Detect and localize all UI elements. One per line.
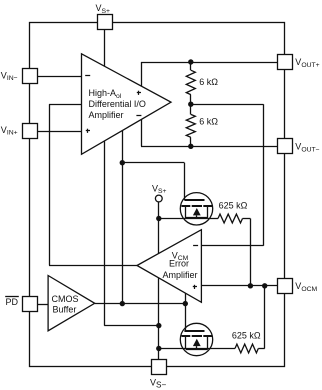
wire power-down distribution vertical [122,131,124,304]
wire buffer output to Vcm amp shutdown stub [185,293,187,304]
wire amp VS- supply horizontal [104,325,159,327]
svg-text:VS+: VS+ [152,183,167,195]
wire amp - output tap down [141,117,143,146]
pin VOUT+ pad [278,55,293,70]
wire VS+ terminal to top MOSFET [159,218,186,220]
svg-text:6 kΩ: 6 kΩ [199,77,218,87]
transistor bottom MOSFET switch [180,323,212,355]
wire Vcm error amp output to main amp [49,265,137,267]
pin VS+ pad [98,15,113,30]
resistor 6k upper [186,70,195,94]
pin PD pad [23,297,38,312]
pin VIN- pad [23,69,38,84]
pin VIN+ pad [23,124,38,139]
wire VOUT+ line [141,62,277,64]
op-amp Vcm error amplifier [137,230,201,303]
resistor 6k lower [186,114,195,137]
svg-text:Amplifier: Amplifier [89,110,124,120]
wire 625k bottom to VOCM line vertical [258,348,264,350]
resistor 625k upper [218,214,243,223]
svg-text:VOUT−: VOUT− [295,142,319,154]
svg-text:625 kΩ: 625 kΩ [232,331,261,341]
wire VS+ pad down to amp top edge [104,29,106,66]
wire 625k top to VOCM line vertical [243,218,251,220]
node VS+ internal terminal [155,195,162,202]
wire top MOSFET gate horizontal [122,162,184,164]
svg-text:VOUT+: VOUT+ [295,57,319,69]
wire top MOSFET gate stub [184,163,186,200]
svg-text:VIN−: VIN− [1,70,18,82]
wire amp + output tap up [141,62,143,87]
svg-text:VIN+: VIN+ [1,125,18,137]
wire Vcm control: amp CM input left stub [49,104,82,106]
svg-text:Error: Error [169,258,189,268]
svg-text:VS−: VS− [150,378,166,390]
svg-text:Amplifier: Amplifier [162,270,197,280]
svg-text:VS+: VS+ [96,3,111,15]
svg-text:625 kΩ: 625 kΩ [219,200,248,210]
wire bottom MOSFET left to VS- [159,348,186,350]
wire CMOS buffer output [95,303,186,305]
svg-text:Buffer: Buffer [53,305,77,315]
wire PD pad to buffer [37,304,48,306]
node junction dots [188,59,193,64]
wire feedback vertical [263,104,265,246]
svg-text:6 kΩ: 6 kΩ [199,117,218,127]
wire bottom MOSFET gate stub [185,304,187,331]
svg-text:Differential I/O: Differential I/O [89,99,146,109]
wire VIN+ pad to amp noninverting input [37,131,82,133]
wire top MOSFET to 625k resistor [208,218,218,220]
package border rectangle [30,23,285,367]
svg-text:CMOS: CMOS [52,294,79,304]
wire 6k midpoint feedback right [191,104,264,106]
svg-text:PD: PD [6,297,19,307]
op-amp CMOS buffer [48,276,95,331]
wire feedback to Vcm amp inverting input [201,245,263,247]
pin VOCM pad [278,279,293,294]
resistor 625k lower [235,344,258,353]
pin VOUT- pad [278,139,293,154]
wire Vcm control vertical [49,104,51,265]
wire VOUT- line [141,146,277,148]
wire VOCM line [201,285,277,287]
op-amp main High-Aol differential amplifier [82,54,172,155]
wire bottom MOSFET to 625k resistor [208,348,235,350]
wire amp VS- supply vertical [104,141,106,325]
pin VS- pad [152,360,167,375]
wire VIN- pad to amp inverting input [37,76,82,78]
svg-text:VOCM: VOCM [295,281,317,293]
wire VS+ terminal stub down [158,202,160,254]
wire Vcm amp VS- supply vertical [158,278,160,366]
transistor top MOSFET switch [180,193,212,225]
